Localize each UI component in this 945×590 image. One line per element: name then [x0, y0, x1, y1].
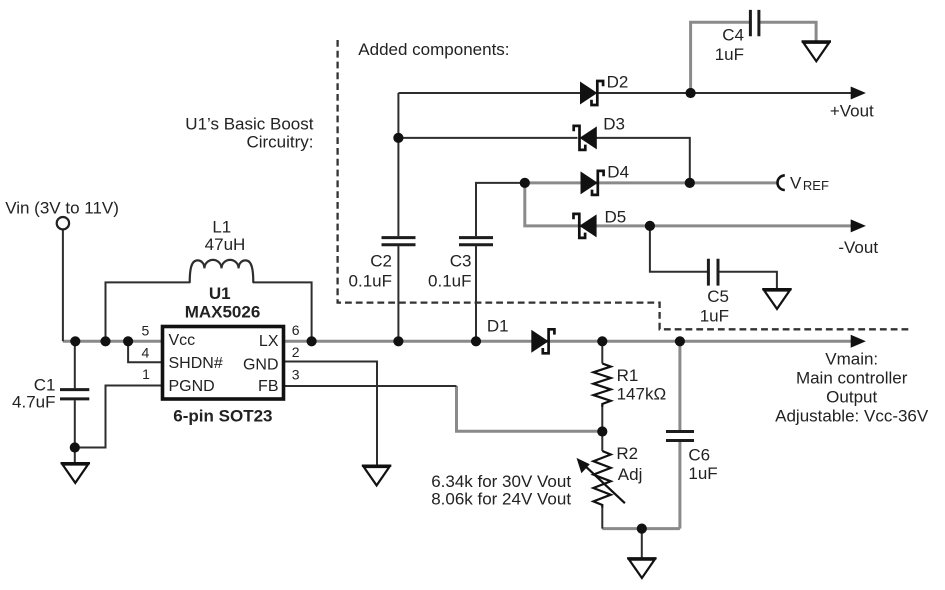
- svg-text:Output: Output: [826, 388, 877, 407]
- wire pin2 GND to ground: [285, 362, 377, 466]
- ground bottom under R2/C6: [627, 558, 657, 578]
- wire Vin drop: [62, 229, 64, 341]
- wire pin3 FB out: [285, 385, 457, 387]
- svg-text:PGND: PGND: [169, 378, 215, 395]
- svg-text:V: V: [790, 174, 802, 193]
- op-amp/IC U1 MAX5026 box: [163, 327, 284, 400]
- svg-text:4.7uF: 4.7uF: [12, 393, 55, 412]
- svg-text:U1’s Basic Boost: U1’s Basic Boost: [185, 114, 313, 133]
- svg-text:Vin (3V to 11V): Vin (3V to 11V): [5, 198, 119, 217]
- svg-text:MAX5026: MAX5026: [185, 303, 261, 322]
- svg-text:+Vout: +Vout: [830, 102, 874, 121]
- svg-text:Adjustable: Vcc-36V: Adjustable: Vcc-36V: [775, 407, 929, 426]
- ground under C1: [61, 463, 91, 483]
- svg-text:C4: C4: [722, 26, 744, 45]
- svg-text:D5: D5: [605, 208, 627, 227]
- node bottom ground junction: [637, 524, 647, 534]
- dashed boundary between basic boost circuitry and added components: [338, 40, 911, 329]
- svg-text:5: 5: [142, 322, 150, 338]
- wire VREF line (gray): [523, 181, 777, 184]
- svg-text:D1: D1: [487, 317, 509, 336]
- arrow Vmain: [851, 335, 866, 348]
- capacitor C3: [459, 238, 493, 245]
- wire R1 stubs: [601, 341, 603, 431]
- inductor L1: [190, 260, 254, 283]
- svg-text:8.06k for 24V Vout: 8.06k for 24V Vout: [431, 490, 571, 509]
- node D5/C5 junction: [645, 221, 655, 231]
- ground under pin2 GND: [362, 466, 392, 486]
- capacitor C6: [666, 432, 694, 441]
- svg-text:6.34k for 30V Vout: 6.34k for 30V Vout: [431, 472, 571, 491]
- wire D3 row: [398, 138, 689, 182]
- capacitor C2: [382, 238, 416, 245]
- arrow -Vout: [851, 219, 866, 232]
- diode D4: [581, 171, 604, 195]
- wire SHDN path: [128, 341, 161, 362]
- ground for C5: [762, 289, 792, 309]
- svg-text:C5: C5: [707, 287, 729, 306]
- capacitor C5: [708, 259, 718, 286]
- svg-text:1: 1: [142, 366, 150, 382]
- wire L1 loop: [106, 282, 312, 341]
- svg-text:L1: L1: [212, 218, 231, 237]
- svg-text:-Vout: -Vout: [838, 238, 878, 257]
- svg-text:Added components:: Added components:: [358, 40, 509, 59]
- diode D3: [574, 126, 597, 150]
- node D2/C4 junction: [686, 88, 696, 98]
- wire C2 vertical: [397, 93, 399, 341]
- svg-text:1uF: 1uF: [700, 306, 729, 325]
- diode D1: [531, 329, 554, 353]
- wire C1 leads: [74, 341, 76, 463]
- svg-text:Adj: Adj: [618, 465, 643, 484]
- wire bottom ground stub: [641, 529, 643, 559]
- svg-text:2: 2: [292, 344, 300, 360]
- svg-text:3: 3: [292, 366, 300, 382]
- svg-text:FB: FB: [258, 378, 278, 395]
- svg-text:6-pin SOT23: 6-pin SOT23: [173, 406, 272, 425]
- wire -Vout line (gray): [525, 182, 852, 226]
- svg-text:GND: GND: [243, 356, 279, 373]
- wire Vcc rail (gray): [63, 340, 161, 343]
- svg-text:C6: C6: [688, 445, 710, 464]
- svg-text:Main controller: Main controller: [796, 369, 908, 388]
- node R1/R2/FB junction: [597, 426, 607, 436]
- node dots on main rail: [307, 336, 686, 346]
- svg-text:D3: D3: [603, 115, 625, 134]
- svg-text:R1: R1: [617, 366, 639, 385]
- svg-text:C3: C3: [450, 252, 472, 271]
- node dots on Vcc rail: [70, 336, 133, 346]
- svg-text:LX: LX: [259, 333, 279, 350]
- svg-text:R2: R2: [616, 444, 638, 463]
- wire C5 branch: [650, 226, 777, 289]
- svg-text:D2: D2: [607, 72, 629, 91]
- terminal Vin: [57, 217, 69, 229]
- svg-text:1uF: 1uF: [715, 45, 744, 64]
- svg-text:1uF: 1uF: [688, 464, 717, 483]
- svg-text:REF: REF: [803, 178, 829, 193]
- node C2/D3 junction: [393, 133, 403, 143]
- svg-text:Vcc: Vcc: [169, 332, 196, 349]
- wire PGND path: [75, 386, 161, 448]
- wire main LX/Vmain rail (gray): [285, 340, 852, 343]
- svg-text:6: 6: [292, 322, 300, 338]
- svg-text:SHDN#: SHDN#: [169, 355, 223, 372]
- resistor R2 (adjustable): [577, 451, 625, 508]
- arrow +Vout: [851, 87, 866, 100]
- wire C4 branch (gray): [691, 22, 817, 94]
- svg-text:Circuitry:: Circuitry:: [246, 133, 313, 152]
- resistor R1: [593, 364, 610, 408]
- svg-text:147kΩ: 147kΩ: [617, 384, 667, 403]
- svg-text:C2: C2: [370, 252, 392, 271]
- svg-text:Vmain:: Vmain:: [825, 350, 878, 369]
- wire D2 row: [398, 92, 851, 94]
- connector VREF arc: [778, 175, 785, 190]
- svg-text:D4: D4: [607, 162, 629, 181]
- diode D2: [580, 81, 603, 105]
- wire R2 bottom to C6 bottom (gray): [602, 527, 680, 530]
- svg-text:0.1uF: 0.1uF: [349, 272, 392, 291]
- ground for C4: [802, 42, 832, 62]
- svg-text:4: 4: [142, 345, 150, 361]
- svg-text:U1: U1: [209, 284, 231, 303]
- wire C3 vertical: [475, 183, 477, 341]
- capacitor C1: [60, 390, 89, 399]
- svg-text:47uH: 47uH: [205, 235, 246, 254]
- node C1 bottom: [70, 442, 80, 452]
- svg-text:0.1uF: 0.1uF: [428, 272, 471, 291]
- node VREF line right junction: [685, 178, 695, 188]
- capacitor C4: [750, 10, 759, 36]
- diode D5: [574, 214, 597, 238]
- wire R2 stubs: [601, 432, 603, 529]
- wire C3 top to VREF junction: [475, 182, 525, 184]
- wire FB feedback run (gray): [457, 386, 603, 431]
- node VREF line left junction: [520, 178, 530, 188]
- wire C6 branch (gray): [678, 341, 681, 528]
